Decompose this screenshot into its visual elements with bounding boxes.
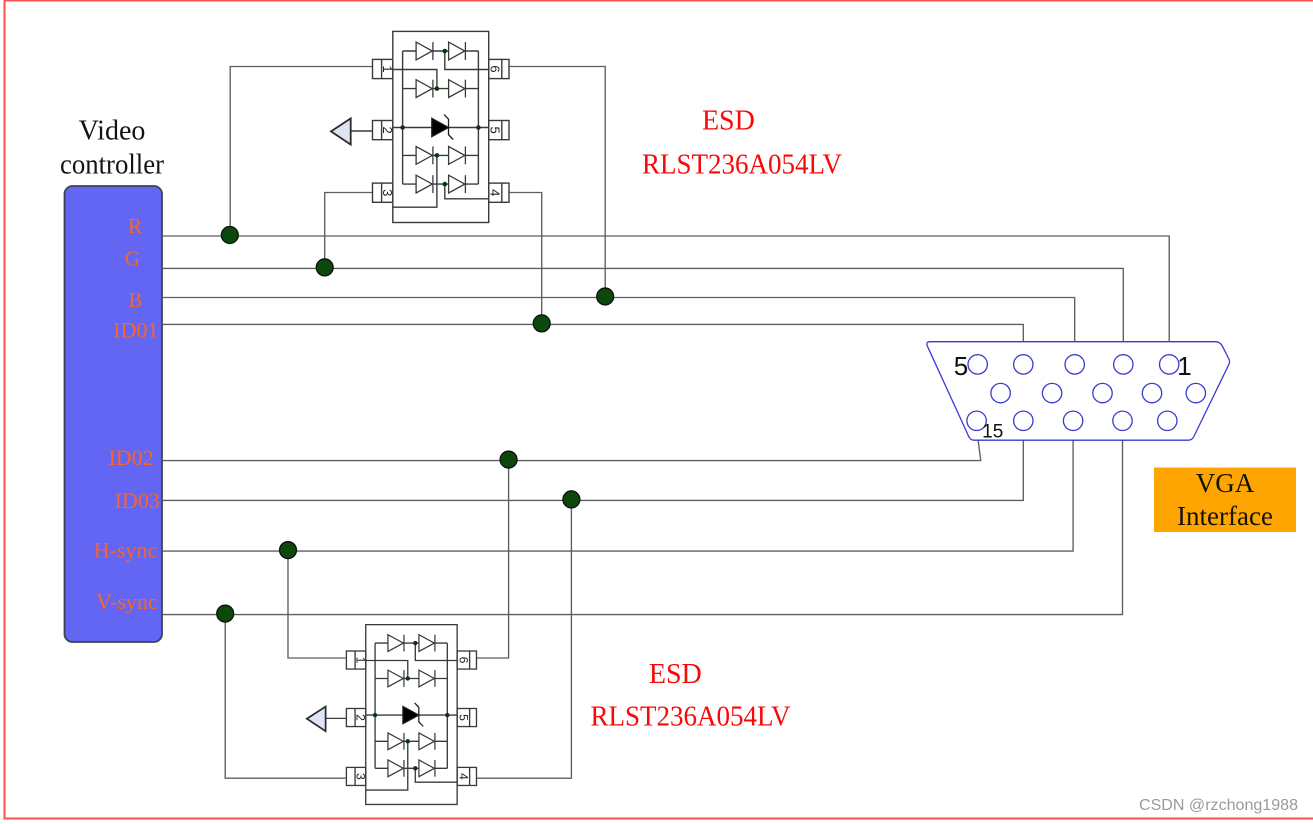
U1 body outline	[393, 31, 489, 222]
U1 diode row D wire	[403, 183, 479, 185]
U1 pin 4 box	[489, 183, 509, 202]
junction node H-sync	[280, 542, 297, 559]
svg-text:R: R	[128, 214, 142, 238]
diode U1-D4	[449, 80, 465, 98]
svg-text:5: 5	[456, 714, 470, 721]
svg-text:1: 1	[1177, 351, 1191, 381]
VGA pin 9 circle	[1042, 383, 1061, 402]
U2 diode row D wire	[375, 767, 447, 769]
diode U1-D5	[416, 147, 432, 165]
VGA pin 14 circle	[1014, 411, 1033, 430]
svg-text:3: 3	[380, 189, 395, 196]
VGA connector J1	[927, 342, 1230, 441]
wire net ID01 branch to U1 pin 4	[509, 193, 542, 325]
U1 pin 1 box	[373, 59, 393, 78]
U2 row C internal wire	[366, 741, 408, 790]
VGA pin 2 circle	[1114, 355, 1133, 374]
wire net R branch to U1 pin 1	[230, 67, 372, 237]
wire net V-sync to VGA pin 12	[163, 431, 1123, 615]
U2 diode row A wire	[375, 642, 447, 644]
svg-text:1: 1	[380, 65, 395, 72]
junction node G	[316, 259, 333, 276]
VGA pin 11 circle	[1158, 411, 1177, 430]
wire net G branch to U1 pin 3	[325, 193, 373, 269]
VGA pin 5 circle	[968, 355, 987, 374]
VGA pin 13 circle	[1063, 411, 1082, 430]
svg-text:5: 5	[954, 351, 968, 381]
wire net G to VGA pin 2	[163, 268, 1123, 355]
U1 pin 2 box	[373, 121, 393, 140]
VGA pin 8 circle	[1093, 383, 1112, 402]
junction node ID02	[500, 451, 517, 468]
svg-text:RLST236A054LV: RLST236A054LV	[642, 149, 842, 180]
U2 pin 6 box	[457, 651, 476, 669]
U2 diode row C wire	[375, 740, 447, 742]
wire net B branch to U1 pin 6	[509, 67, 605, 298]
svg-text:2: 2	[354, 714, 368, 721]
junction dots	[217, 227, 614, 623]
U2 pin 2 box	[346, 708, 365, 726]
diode U2-D2	[419, 635, 434, 652]
diode U2-D6	[419, 733, 434, 750]
label ESD (top)	[591, 105, 843, 732]
wire net V-sync branch to U2 pin 3	[225, 615, 345, 779]
U1 inner right rail	[477, 51, 479, 184]
junction node ID01	[533, 315, 550, 332]
TVS zener diode U1-Z	[432, 115, 453, 140]
wire net H-sync branch to U2 pin 1	[288, 551, 346, 658]
svg-text:ID02: ID02	[108, 445, 153, 470]
diode U2-D5	[388, 733, 403, 750]
svg-text:ID03: ID03	[115, 488, 160, 513]
U2 inner right rail	[446, 643, 448, 768]
svg-text:B: B	[128, 288, 142, 312]
svg-text:15: 15	[982, 422, 1003, 443]
svg-text:V-sync: V-sync	[96, 589, 158, 614]
svg-text:3: 3	[354, 773, 368, 780]
diode U2-D3	[388, 670, 403, 687]
svg-text:G: G	[125, 246, 140, 270]
ESD suppressor U2	[307, 625, 477, 805]
junction node R	[221, 227, 238, 244]
U1 diode row A wire	[403, 50, 479, 52]
diode U1-D8	[449, 175, 465, 193]
svg-text:6: 6	[456, 657, 470, 664]
U2 row D to pin 4 internal wire	[415, 768, 457, 782]
diode U1-D2	[449, 42, 465, 60]
Video controller block	[65, 186, 163, 642]
U2 pin 1 internal wire	[366, 660, 408, 678]
U1 internal junction dots	[400, 49, 480, 187]
U1 diode row B wire	[403, 88, 479, 90]
label Video controller	[60, 116, 165, 181]
VGA pin 12 circle	[1113, 411, 1132, 430]
wire net ID03 branch to U2 pin 4	[477, 500, 572, 778]
diode U1-D6	[449, 147, 465, 165]
wire net R to VGA pin 1	[163, 236, 1169, 355]
VGA pin 7 circle	[1142, 383, 1161, 402]
svg-text:VGA: VGA	[1196, 468, 1255, 498]
diode U2-D8	[419, 760, 434, 777]
svg-text:6: 6	[488, 65, 503, 72]
svg-text:H-sync: H-sync	[94, 537, 158, 562]
wire net B to VGA pin 3	[163, 298, 1075, 356]
diode U1-D7	[416, 175, 432, 193]
ground symbol at U1 pin 2	[331, 118, 373, 144]
VGA pin 1 circle	[1160, 355, 1179, 374]
junction node B	[597, 288, 614, 305]
U2 zener line internal wire	[366, 714, 457, 716]
U2 body outline	[366, 625, 457, 805]
svg-text:4: 4	[456, 773, 470, 780]
svg-text:4: 4	[488, 189, 503, 196]
ground symbol at U2 pin 2	[307, 707, 347, 732]
junction node ID03	[563, 491, 580, 508]
U2 diode row B wire	[375, 677, 447, 679]
VGA Interface box	[1154, 468, 1296, 533]
TVS zener diode U2-Z	[403, 703, 423, 726]
svg-text:5: 5	[488, 126, 503, 133]
U2 internal junction dots	[373, 641, 450, 771]
U1 row A to pin 6 internal wire	[445, 51, 489, 70]
VGA pin 3 circle	[1065, 355, 1084, 374]
svg-text:1: 1	[354, 657, 368, 664]
U1 pin 3 box	[373, 183, 393, 202]
diode U2-D4	[419, 670, 434, 687]
U1 diode row C wire	[403, 154, 479, 156]
wire net ID02 branch to U2 pin 6	[477, 461, 509, 658]
svg-text:controller: controller	[60, 149, 165, 180]
VGA pin 10 circle	[991, 383, 1010, 402]
U2 inner left rail	[374, 643, 376, 768]
svg-text:ID01: ID01	[113, 317, 158, 342]
U1 inner left rail	[402, 51, 404, 184]
U1 row D to pin 4 internal wire	[445, 184, 489, 199]
VGA pin 6 circle	[1186, 383, 1205, 402]
svg-text:Interface: Interface	[1177, 501, 1273, 531]
wire net ID02 to VGA pin 15	[163, 431, 981, 461]
U2 pin 1 box	[346, 651, 365, 669]
wire net ID01 to VGA pin 4	[163, 324, 1023, 355]
U2 pin 3 box	[346, 767, 365, 785]
VGA pin 15 circle	[967, 411, 986, 430]
svg-text:ESD: ESD	[702, 105, 755, 136]
U1 row C internal wire	[393, 155, 437, 207]
U2 row A to pin 6 internal wire	[415, 643, 457, 660]
wire net H-sync to VGA pin 13	[163, 431, 1073, 551]
ESD suppressor U1	[331, 31, 509, 222]
U1 pin 5 box	[489, 121, 509, 140]
pin name R	[94, 214, 160, 614]
junction node V-sync	[217, 605, 234, 622]
svg-text:2: 2	[380, 126, 395, 133]
wire net ID03 to VGA pin 14	[163, 431, 1023, 501]
svg-text:ESD: ESD	[649, 659, 702, 690]
svg-text:CSDN @rzchong1988: CSDN @rzchong1988	[1139, 797, 1298, 814]
diode U2-D1	[388, 635, 403, 652]
U2 pin 4 box	[457, 767, 476, 785]
diode U1-D3	[416, 80, 432, 98]
svg-text:RLST236A054LV: RLST236A054LV	[591, 702, 791, 733]
U1 pin 1 internal wire	[393, 70, 437, 89]
U1 pin 6 box	[489, 59, 509, 78]
diode U2-D7	[388, 760, 403, 777]
svg-text:Video: Video	[79, 116, 146, 147]
U1 zener line internal wire	[393, 127, 489, 129]
diode U1-D1	[416, 42, 432, 60]
VGA pin 4 circle	[1014, 355, 1033, 374]
U2 pin 5 box	[457, 708, 476, 726]
